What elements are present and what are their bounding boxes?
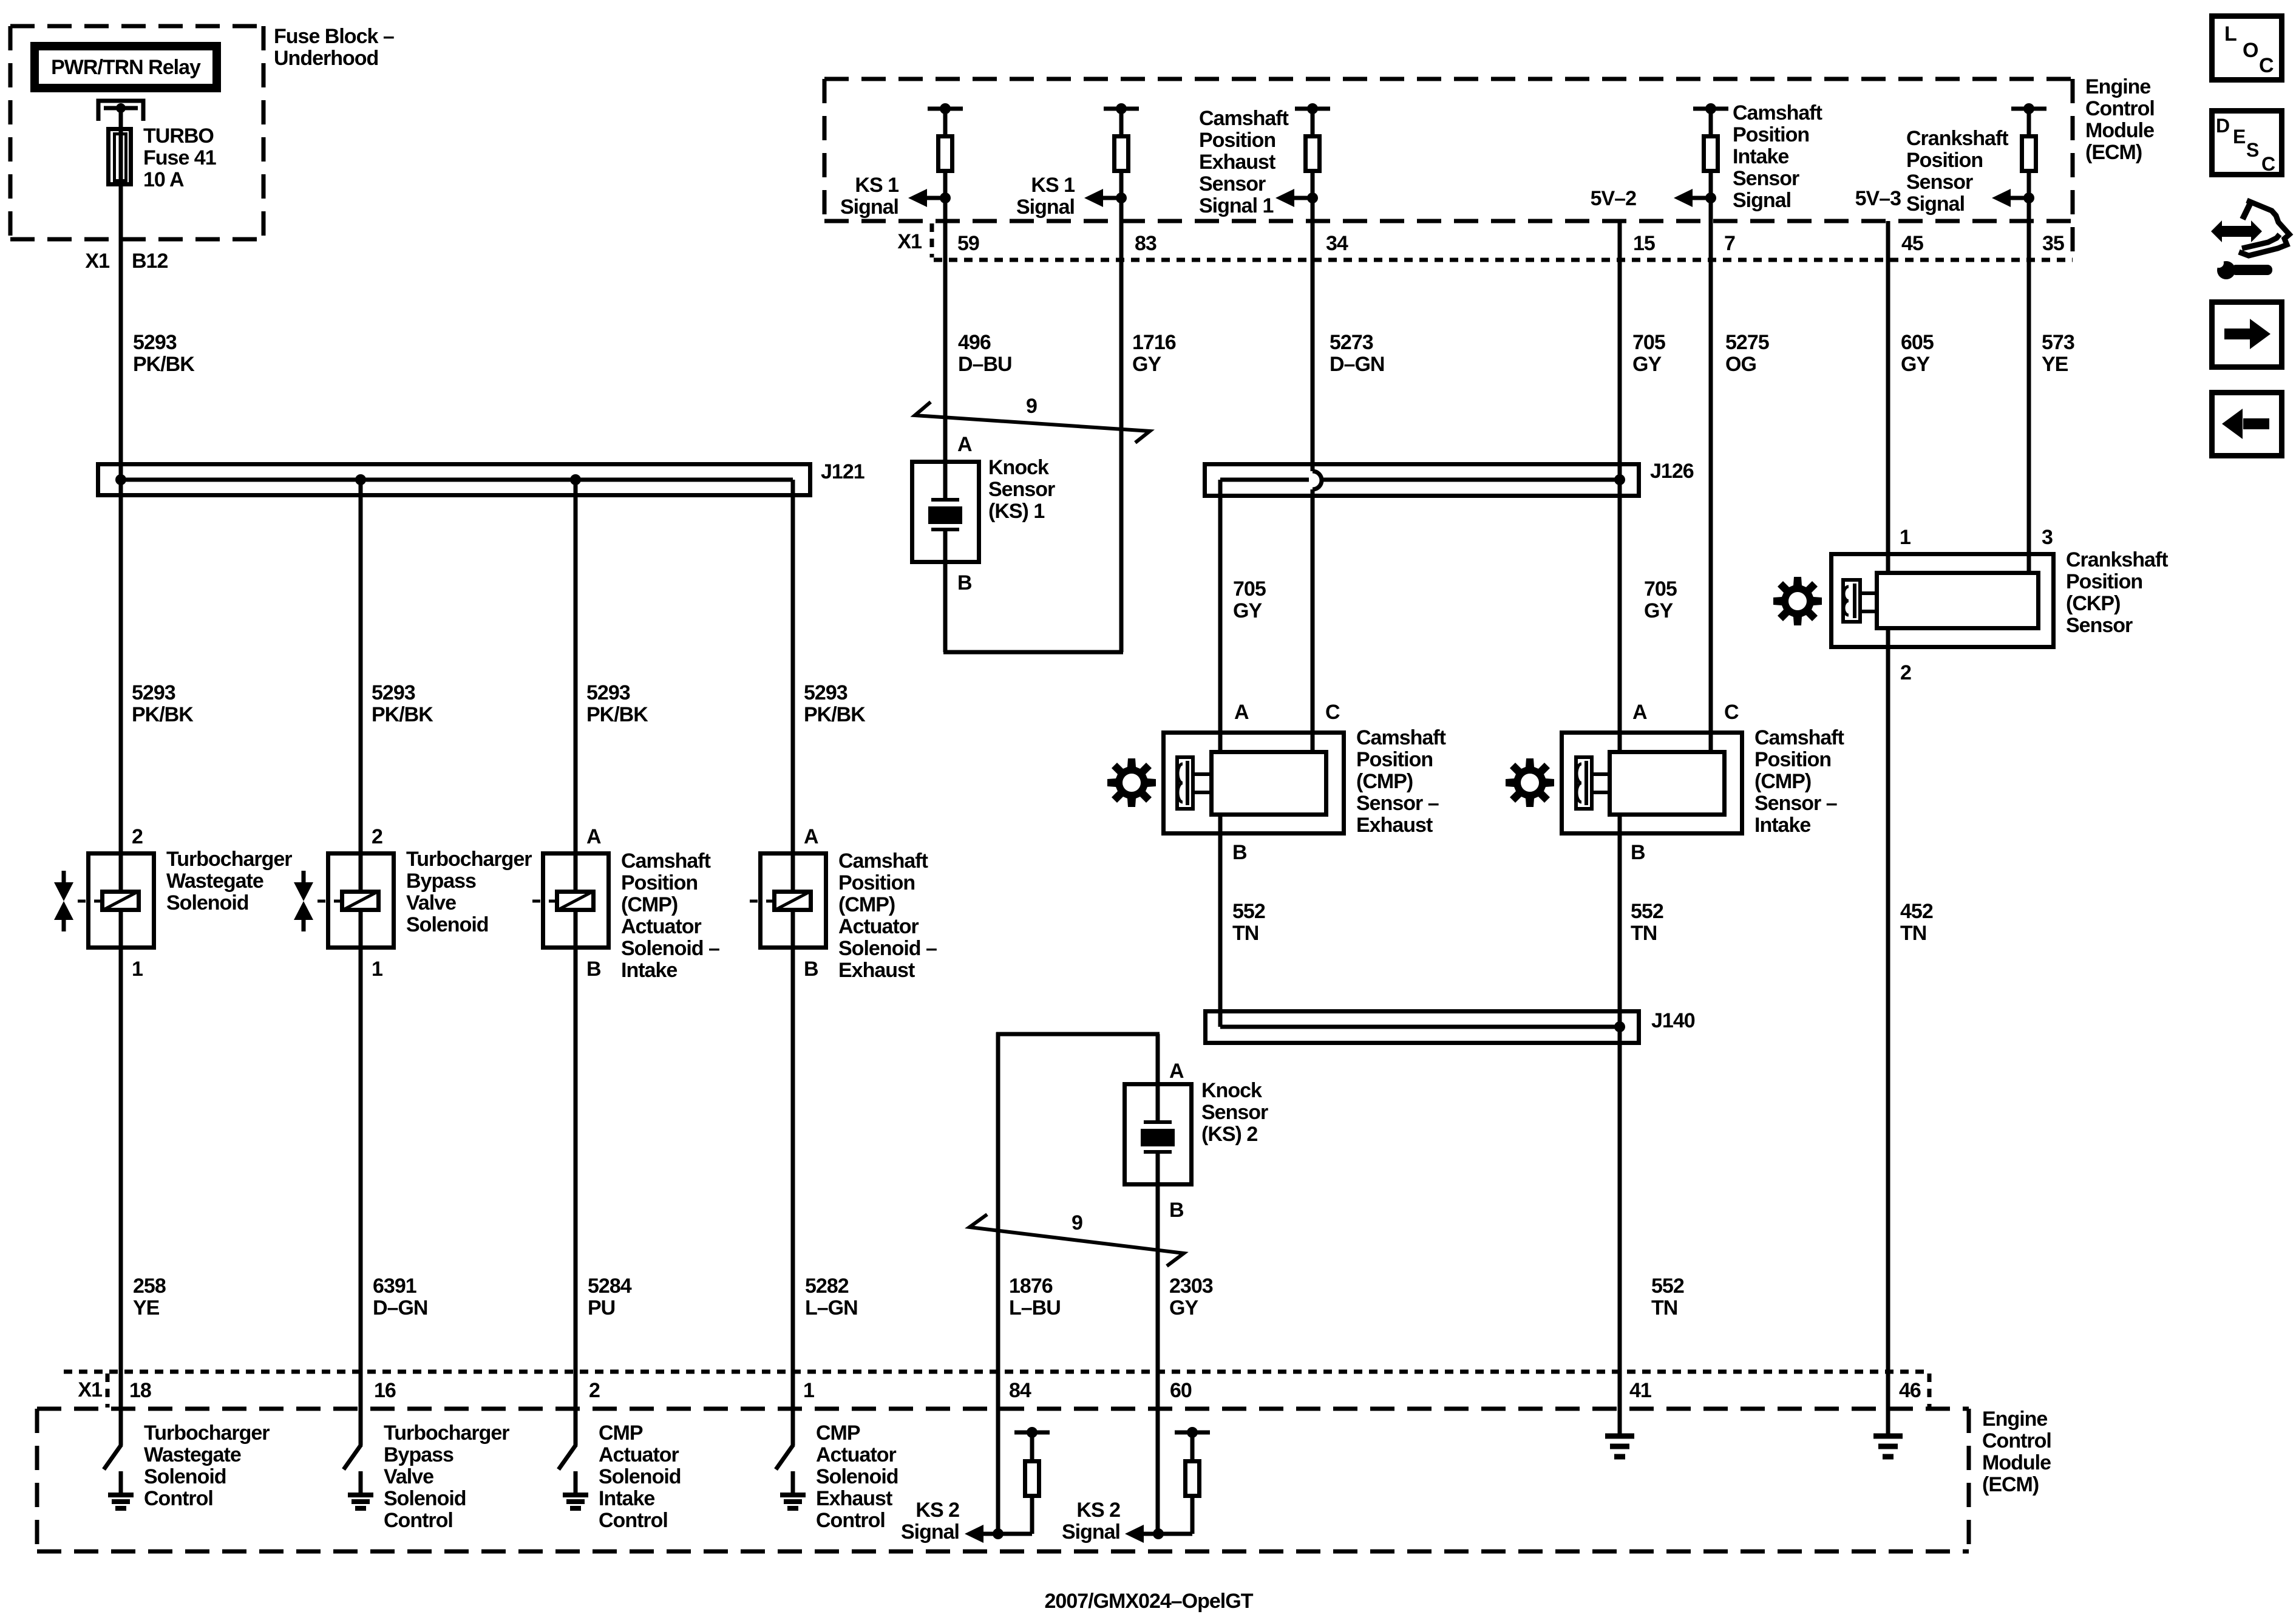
svg-text:Wastegate: Wastegate <box>166 870 263 893</box>
driver switch for pin at x=1306 <box>776 1445 793 1469</box>
svg-text:(ECM): (ECM) <box>1982 1473 2039 1496</box>
camshaft position (CMP) sensor exhaust <box>1164 733 1344 834</box>
svg-text:Camshaft: Camshaft <box>838 849 928 873</box>
svg-text:J126: J126 <box>1650 460 1694 483</box>
junction dot J126 <box>1614 474 1625 485</box>
driver switch for pin at x=199 <box>104 1445 121 1469</box>
svg-text:552: 552 <box>1651 1275 1684 1298</box>
wire J126 left end down to CMP exhaust A <box>1218 480 1223 750</box>
svg-text:496: 496 <box>958 331 991 354</box>
svg-text:YE: YE <box>133 1296 160 1319</box>
arrow KS 1 Signal pin 59 <box>940 192 951 203</box>
svg-text:Sensor –: Sensor – <box>1356 792 1439 815</box>
svg-text:59: 59 <box>957 232 979 255</box>
svg-text:9: 9 <box>1072 1211 1082 1234</box>
ground (driver low side) x=594 <box>359 1471 363 1495</box>
svg-text:PK/BK: PK/BK <box>133 353 195 376</box>
svg-text:Solenoid: Solenoid <box>166 891 249 914</box>
svg-text:1: 1 <box>372 958 382 981</box>
svg-text:705: 705 <box>1233 577 1266 601</box>
svg-text:Signal: Signal <box>901 1520 959 1544</box>
svg-text:5V–2: 5V–2 <box>1591 187 1636 210</box>
fuse F41 TURBO 10A <box>109 129 131 185</box>
solenoid coil <box>342 892 379 910</box>
svg-text:(CMP): (CMP) <box>1356 770 1413 793</box>
wire 573 YE pin35 to CKP 3 <box>2027 173 2031 571</box>
svg-text:X1: X1 <box>78 1378 102 1401</box>
svg-text:2: 2 <box>589 1379 600 1402</box>
svg-text:5273: 5273 <box>1330 331 1373 354</box>
svg-text:1: 1 <box>803 1379 814 1402</box>
svg-text:Knock: Knock <box>1201 1079 1262 1102</box>
ECM top connector dotted line <box>934 258 2073 262</box>
svg-text:1: 1 <box>132 958 143 981</box>
svg-text:PK/BK: PK/BK <box>586 703 648 726</box>
ECM internal pull-up pin x=2818 <box>1693 107 1728 111</box>
svg-text:Control: Control <box>144 1487 213 1510</box>
solenoid body box <box>328 854 394 948</box>
svg-text:KS 1: KS 1 <box>855 174 898 197</box>
wire KS1 B loop to pin 83 wire <box>943 564 948 652</box>
svg-text:10 A: 10 A <box>143 168 184 191</box>
svg-text:B12: B12 <box>132 250 168 273</box>
wire 2303 GY KS2 B down <box>1156 1186 1160 1534</box>
ECM internal pull-up pin x=2162 <box>1295 107 1330 111</box>
solenoid coil <box>103 892 139 910</box>
svg-text:5293: 5293 <box>804 681 847 704</box>
svg-text:Solenoid –: Solenoid – <box>838 937 937 960</box>
svg-text:(ECM): (ECM) <box>2085 141 2142 164</box>
crankshaft position (CKP) sensor <box>1832 554 2054 647</box>
svg-text:Signal: Signal <box>840 196 898 219</box>
svg-text:GY: GY <box>1169 1296 1198 1319</box>
junction dot J140 <box>1614 1021 1625 1032</box>
svg-text:A: A <box>586 825 601 848</box>
svg-text:Sensor: Sensor <box>988 478 1055 501</box>
coil left dashes <box>318 900 325 903</box>
svg-text:7: 7 <box>1724 232 1735 255</box>
knock sensor body box <box>912 462 979 562</box>
svg-text:L: L <box>2224 22 2237 46</box>
svg-text:41: 41 <box>1629 1379 1651 1402</box>
ground (driver low side) x=948 <box>574 1471 578 1495</box>
splice pack J126 <box>1205 465 1639 496</box>
svg-text:Control: Control <box>816 1509 885 1532</box>
svg-text:2303: 2303 <box>1169 1275 1213 1298</box>
svg-text:B: B <box>957 571 972 594</box>
svg-text:1: 1 <box>1900 526 1911 549</box>
svg-text:1716: 1716 <box>1132 331 1176 354</box>
svg-text:Signal: Signal <box>1733 189 1791 212</box>
svg-text:Valve: Valve <box>406 891 456 914</box>
svg-text:PK/BK: PK/BK <box>372 703 433 726</box>
svg-text:C: C <box>2259 54 2274 77</box>
svg-text:(CMP): (CMP) <box>1754 770 1811 793</box>
coil left dashes <box>750 900 758 903</box>
svg-text:A: A <box>957 433 972 456</box>
ECM internal pull-up pin x=3342 <box>2011 107 2046 111</box>
svg-text:Module: Module <box>1982 1451 2051 1474</box>
solenoid body box <box>543 854 609 948</box>
driver switch for pin at x=594 <box>344 1445 361 1469</box>
svg-text:E: E <box>2233 126 2246 148</box>
svg-text:9: 9 <box>1026 395 1037 418</box>
icon forward arrow box <box>2212 302 2282 367</box>
svg-text:TN: TN <box>1631 922 1657 945</box>
wire solenoid CMP actuator solenoid exhaust through coil down <box>791 912 795 950</box>
svg-text:Camshaft: Camshaft <box>621 849 711 873</box>
wire 452 TN CKP 2 to pin 46 <box>1886 630 1890 1434</box>
svg-text:TURBO: TURBO <box>143 124 214 148</box>
svg-text:3: 3 <box>2042 526 2053 549</box>
svg-text:Fuse 41: Fuse 41 <box>143 146 216 169</box>
driver switch for pin at x=948 <box>559 1445 576 1469</box>
svg-text:Camshaft: Camshaft <box>1754 726 1844 749</box>
svg-text:Engine: Engine <box>1982 1408 2047 1431</box>
svg-text:Wastegate: Wastegate <box>144 1443 241 1466</box>
arrow CKP sensor signal pin 35 <box>2023 192 2034 203</box>
ECM internal pull-up pin x=1557 <box>928 107 963 111</box>
wire 5293 PK/BK from fuse to J121 <box>119 186 123 480</box>
svg-text:Intake: Intake <box>621 959 677 982</box>
svg-text:OG: OG <box>1725 353 1756 376</box>
svg-text:2: 2 <box>1900 661 1911 684</box>
svg-text:Control: Control <box>599 1509 668 1532</box>
svg-text:Exhaust: Exhaust <box>1199 151 1275 174</box>
ECM internal pull-up pin x=1847 <box>1104 107 1139 111</box>
svg-text:2007/GMX024–OpelGT: 2007/GMX024–OpelGT <box>1045 1590 1254 1613</box>
knock sensor body box <box>1125 1084 1192 1185</box>
svg-text:605: 605 <box>1901 331 1934 354</box>
svg-text:Actuator: Actuator <box>816 1443 897 1466</box>
svg-text:Exhaust: Exhaust <box>816 1487 892 1510</box>
solenoid body box <box>761 854 826 948</box>
svg-text:552: 552 <box>1232 900 1265 923</box>
solenoid coil <box>557 892 594 910</box>
node B12 relay output tick <box>104 106 138 111</box>
svg-text:GY: GY <box>1132 353 1161 376</box>
svg-text:Solenoid: Solenoid <box>816 1465 898 1488</box>
svg-text:Position: Position <box>621 871 698 894</box>
svg-text:Solenoid –: Solenoid – <box>621 937 719 960</box>
ECM top dashed box <box>824 77 2073 81</box>
svg-text:CMP: CMP <box>816 1421 860 1445</box>
svg-text:Valve: Valve <box>384 1465 433 1488</box>
svg-text:705: 705 <box>1632 331 1665 354</box>
svg-text:GY: GY <box>1901 353 1930 376</box>
svg-text:Position: Position <box>1733 123 1809 146</box>
svg-text:KS 2: KS 2 <box>1076 1499 1120 1522</box>
svg-text:A: A <box>804 825 818 848</box>
svg-text:Engine: Engine <box>2085 75 2150 98</box>
ground (driver low side) x=199 <box>119 1471 123 1495</box>
svg-text:552: 552 <box>1631 900 1663 923</box>
svg-text:Control: Control <box>1982 1429 2051 1452</box>
svg-text:34: 34 <box>1326 232 1348 255</box>
svg-text:D: D <box>2216 115 2229 137</box>
svg-text:Camshaft: Camshaft <box>1199 107 1289 130</box>
svg-text:5284: 5284 <box>588 1275 632 1298</box>
svg-text:Signal: Signal <box>1906 192 1965 216</box>
svg-text:TN: TN <box>1900 922 1926 945</box>
junction dots J121 <box>115 474 126 485</box>
arrow CMP exhaust sensor signal pin 34 <box>1307 192 1318 203</box>
svg-text:18: 18 <box>129 1379 151 1402</box>
svg-text:5293: 5293 <box>132 681 175 704</box>
svg-text:(CKP): (CKP) <box>2066 592 2120 615</box>
valve symbol <box>62 871 66 882</box>
svg-text:Control: Control <box>384 1509 453 1532</box>
svg-text:(KS) 1: (KS) 1 <box>988 500 1044 523</box>
svg-text:258: 258 <box>133 1275 166 1298</box>
svg-text:705: 705 <box>1644 577 1677 601</box>
svg-text:Signal: Signal <box>1016 196 1075 219</box>
svg-text:Knock: Knock <box>988 456 1049 479</box>
svg-text:D–GN: D–GN <box>1330 353 1384 376</box>
svg-text:Camshaft: Camshaft <box>1733 101 1822 124</box>
svg-text:(KS) 2: (KS) 2 <box>1201 1123 1257 1146</box>
wire solenoid turbo wastegate solenoid through coil down <box>119 912 123 950</box>
valve symbol <box>302 871 306 882</box>
splice pack J121 <box>98 465 810 495</box>
svg-text:15: 15 <box>1633 232 1655 255</box>
svg-text:A: A <box>1169 1060 1184 1083</box>
svg-text:Actuator: Actuator <box>599 1443 679 1466</box>
svg-text:GY: GY <box>1644 599 1673 622</box>
svg-text:Position: Position <box>1754 748 1831 771</box>
svg-text:C: C <box>1325 701 1340 724</box>
wire 5293 PK/BK branch to solenoid 1 <box>119 480 123 890</box>
ECM internal KS2 input pin x=1908 <box>1175 1431 1210 1435</box>
svg-text:Bypass: Bypass <box>384 1443 453 1466</box>
svg-text:GY: GY <box>1632 353 1662 376</box>
ECM bottom connector dotted line <box>64 1370 1926 1374</box>
wire 5273 D-GN pin34 to CMP exhaust C (with hop at J126) <box>1311 173 1315 471</box>
svg-text:Sensor: Sensor <box>2066 614 2133 637</box>
svg-text:5282: 5282 <box>805 1275 849 1298</box>
svg-text:B: B <box>1232 841 1247 864</box>
svg-text:GY: GY <box>1233 599 1262 622</box>
svg-text:2: 2 <box>372 825 382 848</box>
fuse block underhood dashed box <box>10 24 263 29</box>
svg-text:Solenoid: Solenoid <box>406 913 489 936</box>
svg-text:YE: YE <box>2042 353 2068 376</box>
svg-text:Bypass: Bypass <box>406 870 476 893</box>
svg-text:Sensor: Sensor <box>1201 1101 1268 1124</box>
coil left dashes <box>532 900 540 903</box>
wire 605 GY pin45 to CKP 1 <box>1886 221 1890 571</box>
svg-text:5293: 5293 <box>586 681 630 704</box>
svg-text:Position: Position <box>2066 570 2142 593</box>
wire solenoid turbo bypass valve solenoid through coil down <box>359 912 363 950</box>
shield crossing mark 9 (bottom) <box>970 1214 1184 1266</box>
svg-text:Camshaft: Camshaft <box>1356 726 1446 749</box>
svg-text:Control: Control <box>2085 97 2155 120</box>
svg-text:TN: TN <box>1232 922 1258 945</box>
wire 1876 L-BU up-over to KS2 A <box>996 1032 1000 1534</box>
svg-text:C: C <box>2261 153 2275 175</box>
icon vehicle hotspot (car + double arrow + wrench) <box>2211 220 2262 242</box>
svg-text:16: 16 <box>374 1379 396 1402</box>
wire 1716 GY pin83 down <box>1119 173 1124 652</box>
connector X1 divider dash bottom left <box>106 1374 110 1408</box>
svg-text:Crankshaft: Crankshaft <box>2066 548 2168 571</box>
wire 5293 PK/BK branch to solenoid 2 <box>359 480 363 890</box>
svg-text:S: S <box>2246 139 2259 161</box>
svg-text:Intake: Intake <box>1733 145 1788 168</box>
solenoid body box <box>89 854 154 948</box>
svg-text:1876: 1876 <box>1009 1275 1053 1298</box>
svg-text:Fuse Block –: Fuse Block – <box>274 25 394 48</box>
svg-text:J140: J140 <box>1651 1009 1695 1032</box>
knock sensor piezo plates <box>1156 1082 1160 1122</box>
svg-text:Crankshaft: Crankshaft <box>1906 127 2008 150</box>
svg-text:Exhaust: Exhaust <box>838 959 915 982</box>
wire solenoid CMP actuator solenoid intake through coil down <box>574 912 578 950</box>
svg-text:Signal 1: Signal 1 <box>1199 194 1273 217</box>
svg-text:Intake: Intake <box>599 1487 654 1510</box>
svg-text:PK/BK: PK/BK <box>132 703 194 726</box>
svg-text:Signal: Signal <box>1062 1520 1120 1544</box>
svg-text:(CMP): (CMP) <box>838 893 895 916</box>
svg-text:O: O <box>2243 39 2258 62</box>
svg-text:PK/BK: PK/BK <box>804 703 866 726</box>
wire CMP exhaust B to J140 <box>1218 817 1223 1027</box>
svg-text:5V–3: 5V–3 <box>1855 187 1901 210</box>
svg-text:B: B <box>586 958 601 981</box>
svg-text:Turbocharger: Turbocharger <box>406 848 532 871</box>
svg-text:Solenoid: Solenoid <box>384 1487 466 1510</box>
svg-text:6391: 6391 <box>373 1275 416 1298</box>
svg-text:PWR/TRN Relay: PWR/TRN Relay <box>51 56 201 79</box>
svg-text:84: 84 <box>1009 1379 1031 1402</box>
wire CMP intake B to J140 and pin 41 <box>1618 817 1622 1434</box>
svg-text:Position: Position <box>1199 129 1275 152</box>
svg-text:PU: PU <box>588 1296 615 1319</box>
svg-text:452: 452 <box>1900 900 1933 923</box>
icon DESC box <box>2212 111 2282 175</box>
svg-text:Exhaust: Exhaust <box>1356 814 1433 837</box>
svg-text:B: B <box>1631 841 1645 864</box>
wire 705 GY pin15 through J126 to CMP intake A <box>1618 221 1622 750</box>
ground at pin 41 <box>1605 1434 1634 1439</box>
wire 5293 PK/BK branch to solenoid 4 <box>791 480 795 890</box>
svg-text:Solenoid: Solenoid <box>144 1465 226 1488</box>
svg-text:B: B <box>1169 1199 1184 1222</box>
arrow KS 1 Signal pin 83 <box>1116 192 1127 203</box>
svg-text:Module: Module <box>2085 119 2154 142</box>
shield crossing mark 9 (top) <box>915 402 1150 443</box>
svg-text:2: 2 <box>132 825 143 848</box>
svg-text:Actuator: Actuator <box>838 915 919 938</box>
splice pack J140 <box>1206 1012 1639 1043</box>
svg-text:Sensor: Sensor <box>1733 167 1799 190</box>
solenoid coil <box>775 892 811 910</box>
svg-text:J121: J121 <box>821 460 864 483</box>
svg-text:A: A <box>1234 701 1249 724</box>
svg-text:Sensor: Sensor <box>1906 171 1973 194</box>
svg-text:B: B <box>804 958 818 981</box>
svg-text:A: A <box>1632 701 1647 724</box>
hop over J126 <box>1313 471 1322 489</box>
ECM internal KS2 input pin x=1644 <box>1014 1431 1050 1435</box>
svg-text:Intake: Intake <box>1754 814 1810 837</box>
coil left dashes <box>78 900 86 903</box>
svg-text:Position: Position <box>1906 149 1983 172</box>
ECM bottom dashed box <box>37 1407 1969 1411</box>
svg-text:X1: X1 <box>897 230 922 253</box>
wire relay to fuse <box>119 108 123 127</box>
wire 5275 OG pin7 to CMP intake C <box>1709 173 1713 750</box>
icon LOC box <box>2212 16 2282 80</box>
svg-text:D–BU: D–BU <box>958 353 1012 376</box>
icon back arrow box <box>2212 393 2282 456</box>
knock sensor piezo plates <box>943 460 948 500</box>
svg-text:KS 1: KS 1 <box>1031 174 1075 197</box>
svg-text:35: 35 <box>2042 232 2064 255</box>
svg-text:5293: 5293 <box>133 331 177 354</box>
svg-text:D–GN: D–GN <box>373 1296 427 1319</box>
arrow CMP intake sensor signal pin 7 <box>1705 192 1716 203</box>
svg-text:Underhood: Underhood <box>274 47 378 70</box>
svg-text:CMP: CMP <box>599 1421 643 1445</box>
camshaft position (CMP) sensor intake <box>1562 733 1742 834</box>
svg-text:Position: Position <box>1356 748 1433 771</box>
svg-text:Turbocharger: Turbocharger <box>144 1421 270 1445</box>
svg-text:Turbocharger: Turbocharger <box>166 848 292 871</box>
svg-text:45: 45 <box>1901 232 1923 255</box>
svg-text:(CMP): (CMP) <box>621 893 678 916</box>
svg-text:573: 573 <box>2042 331 2074 354</box>
svg-text:L–BU: L–BU <box>1009 1296 1061 1319</box>
wire 496 D-BU pin59 to KS1 A <box>943 173 948 500</box>
svg-text:5293: 5293 <box>372 681 415 704</box>
svg-text:L–GN: L–GN <box>805 1296 858 1319</box>
svg-text:46: 46 <box>1899 1379 1921 1402</box>
wire 5293 PK/BK branch to solenoid 3 <box>574 480 578 890</box>
ground at pin 46 <box>1873 1434 1903 1439</box>
svg-text:C: C <box>1724 701 1739 724</box>
connector divider dash bottom right <box>1927 1374 1932 1408</box>
svg-text:X1: X1 <box>85 250 109 273</box>
relay K PWR/TRN Relay box <box>35 46 217 88</box>
svg-text:5275: 5275 <box>1725 331 1769 354</box>
svg-text:83: 83 <box>1135 232 1156 255</box>
relay pin bracket <box>98 101 143 121</box>
connector X1 divider dash <box>930 223 934 257</box>
svg-text:Position: Position <box>838 871 915 894</box>
svg-text:TN: TN <box>1651 1296 1677 1319</box>
svg-text:Actuator: Actuator <box>621 915 702 938</box>
svg-text:Turbocharger: Turbocharger <box>384 1421 509 1445</box>
svg-text:Solenoid: Solenoid <box>599 1465 681 1488</box>
svg-text:60: 60 <box>1170 1379 1192 1402</box>
ground (driver low side) x=1306 <box>791 1471 795 1495</box>
svg-text:Sensor –: Sensor – <box>1754 792 1837 815</box>
svg-text:Sensor: Sensor <box>1199 172 1266 196</box>
svg-text:KS 2: KS 2 <box>915 1499 959 1522</box>
